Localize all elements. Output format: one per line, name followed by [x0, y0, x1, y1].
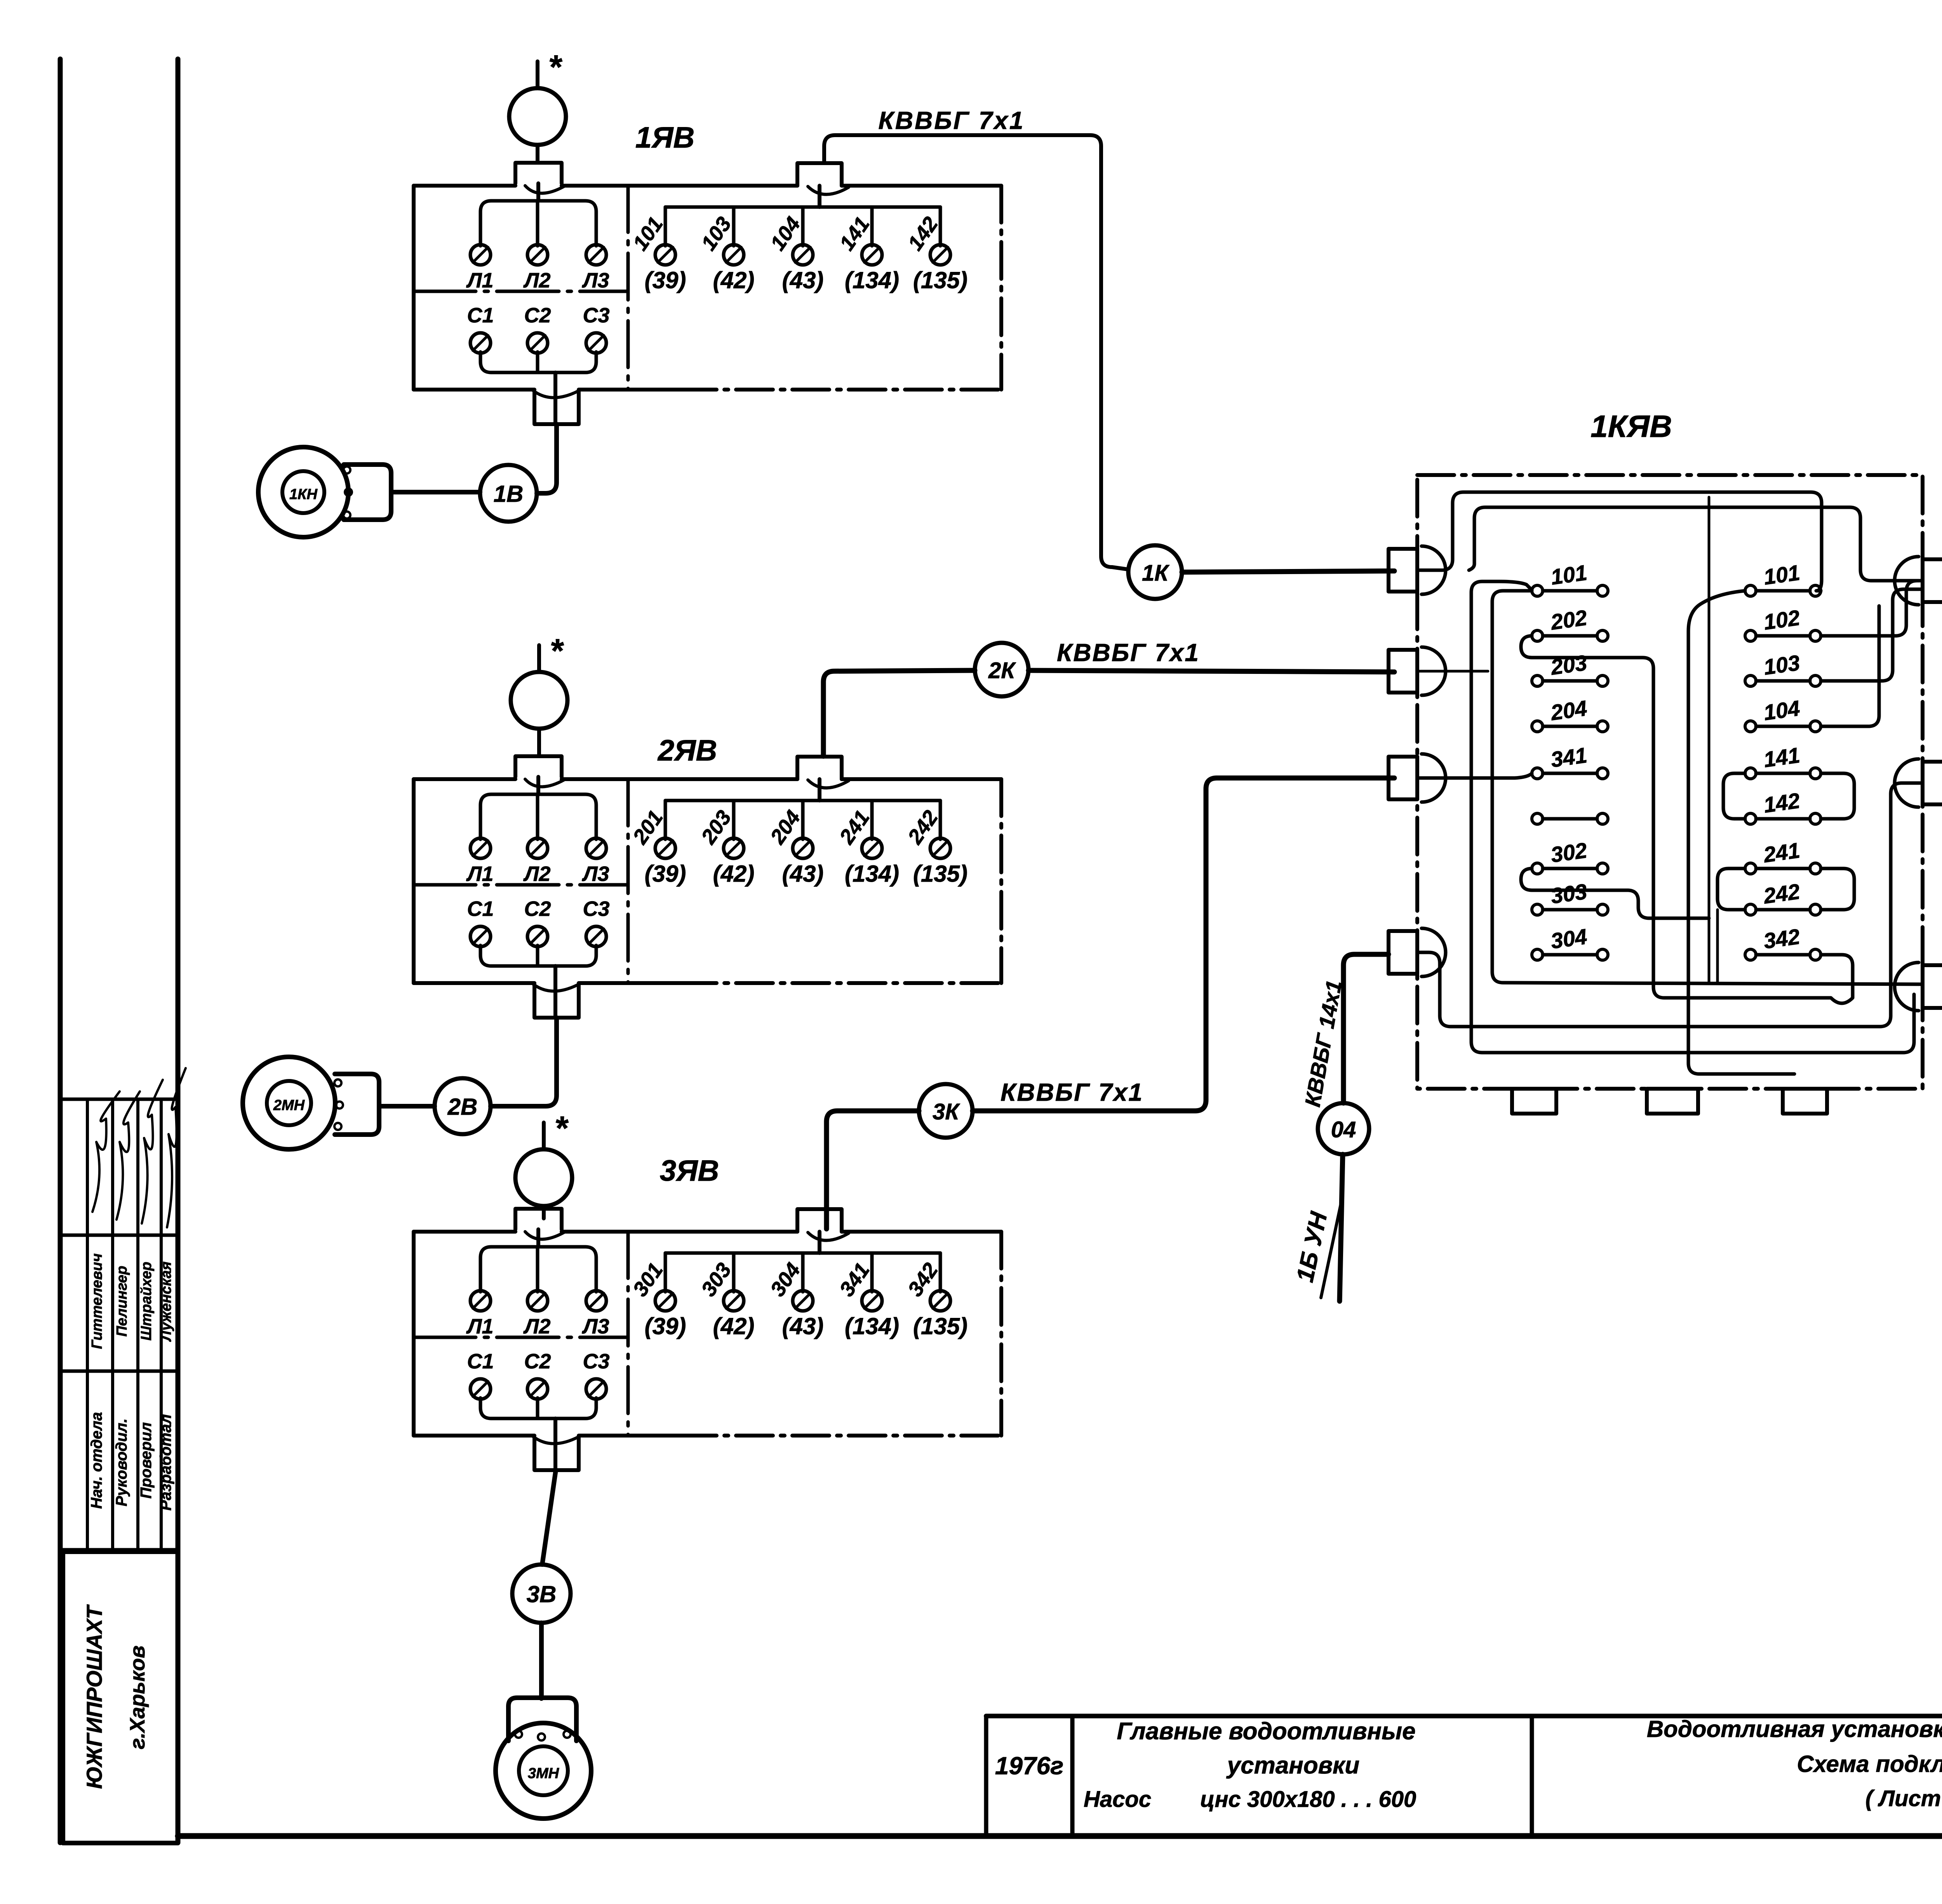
wire left row 101 down to gland 3У: [1492, 591, 1923, 984]
title block top line: [986, 1714, 1942, 1718]
svg-text:1К: 1К: [1142, 560, 1169, 586]
terminal pair left 204: [1532, 721, 1543, 732]
cable marker circle 3В: [512, 1565, 571, 1623]
terminal pair left 202: [1532, 630, 1543, 641]
signature squiggle 1: [92, 1091, 120, 1212]
stamp table divider 1: [61, 1234, 178, 1237]
pump motor 2МН inner: [267, 1081, 311, 1125]
svg-text:( Лист 12): ( Лист 12): [1865, 1786, 1942, 1811]
svg-text:1976г: 1976г: [995, 1752, 1064, 1780]
cable gland 04 entry arc: [1422, 928, 1446, 976]
wire bracket rows 141-142 left: [1723, 773, 1745, 819]
svg-text:Штрайхер: Штрайхер: [138, 1262, 155, 1340]
wire 04 gland to gland 2У: [1417, 783, 1923, 1027]
wire 2К to junction box: [1028, 670, 1394, 672]
terminal pair right 101: [1745, 585, 1756, 596]
2ЯВ drive stem below: [537, 729, 541, 741]
cable КВВБГ 14х1 up to junction box: [1343, 954, 1389, 1103]
svg-text:3ЯВ: 3ЯВ: [660, 1154, 719, 1187]
svg-text:Гиттелевич: Гиттелевич: [89, 1253, 105, 1349]
svg-text:103: 103: [1762, 650, 1801, 679]
svg-text:102: 102: [1762, 605, 1801, 634]
cable gland 1К entry arc: [1422, 546, 1446, 594]
svg-text:101: 101: [1549, 560, 1589, 589]
wire drive1 to connector: [536, 145, 539, 163]
wire row 302 hook: [1521, 868, 1709, 918]
svg-text:342: 342: [1762, 924, 1801, 953]
motor 2МН contact dot 3: [334, 1123, 341, 1130]
svg-text:Проверил: Проверил: [137, 1422, 155, 1498]
cable gland 2У entry square: [1923, 762, 1942, 804]
terminal pair right 141: [1745, 768, 1756, 779]
wire 1К to junction box: [1182, 571, 1394, 572]
svg-text:341: 341: [1549, 743, 1589, 772]
svg-text:1В: 1В: [494, 481, 524, 507]
cable КВВБГ 7х1 from 1ЯВ: [824, 135, 1128, 569]
svg-text:304: 304: [1549, 924, 1589, 953]
wire row 342 stub: [1821, 953, 1842, 957]
motor 3МН terminal box: [508, 1698, 576, 1741]
3ЯВ drive stem below: [542, 1206, 546, 1218]
valve circle 2ЯВ drive: [511, 672, 567, 729]
svg-text:Разработал: Разработал: [157, 1414, 174, 1511]
svg-text:2В: 2В: [447, 1094, 478, 1120]
motor 2МН terminal box: [335, 1074, 379, 1135]
motor 3МН contact dot 2: [538, 1733, 545, 1740]
wire 2К gland stub: [1417, 670, 1488, 673]
svg-text:Луженская: Луженская: [158, 1262, 174, 1342]
2ЯВ drive stem above: [537, 645, 541, 672]
cable gland 3К entry arc: [1422, 754, 1446, 802]
terminal pair right 102: [1745, 630, 1756, 641]
svg-text:*: *: [548, 49, 562, 86]
svg-text:2МН: 2МН: [273, 1097, 305, 1114]
cable gland 3К entry square: [1389, 757, 1417, 799]
frame left outer line: [58, 59, 63, 1843]
wire 2В to starter 2ЯВ: [491, 1018, 557, 1106]
wire ring core to gland 1У: [1469, 507, 1923, 581]
svg-text:установки: установки: [1226, 1752, 1360, 1779]
svg-text:242: 242: [1762, 879, 1801, 908]
cable gland 3У entry arc: [1895, 962, 1919, 1011]
svg-text:Насос: Насос: [1084, 1787, 1151, 1812]
terminal pair left 302: [1532, 863, 1543, 874]
svg-text:цнс 300х180 . . . 600: цнс 300х180 . . . 600: [1200, 1787, 1416, 1812]
signature squiggle 4: [167, 1068, 186, 1227]
svg-text:141: 141: [1762, 743, 1801, 772]
svg-text:ЮЖГИПРОШАХТ: ЮЖГИПРОШАХТ: [82, 1604, 106, 1789]
frame left inner line: [176, 59, 181, 1843]
signature squiggle 2: [117, 1091, 140, 1220]
3ЯВ drive stem above: [542, 1123, 546, 1149]
motor 1КН contact dot 3: [343, 512, 350, 519]
junction box mounting foot: [1512, 1089, 1556, 1114]
svg-text:3МН: 3МН: [528, 1765, 560, 1782]
frame bottom line: [178, 1833, 1942, 1839]
terminal pair left 203: [1532, 675, 1543, 686]
svg-text:104: 104: [1762, 696, 1801, 725]
divider after pump cell: [1530, 1716, 1534, 1836]
pump motor 3МН inner: [519, 1746, 568, 1795]
stamp column line a: [86, 1099, 89, 1550]
cable gland 04 entry square: [1389, 931, 1417, 974]
cable marker circle 04: [1318, 1103, 1369, 1154]
wire 2МН to 2В: [379, 1104, 435, 1109]
wire row 104 riser: [1821, 606, 1879, 726]
divider after year cell: [1070, 1716, 1075, 1836]
starter box 3ЯВ: [414, 1209, 1001, 1470]
cable gland 1У entry square: [1923, 559, 1942, 602]
wire ring 1К to right row 101: [1417, 492, 1822, 591]
terminal pair right 242: [1745, 904, 1756, 915]
svg-text:204: 204: [1549, 696, 1589, 725]
motor 2МН contact dot 2: [336, 1102, 343, 1109]
terminal pair right 103: [1745, 675, 1756, 686]
svg-text:2К: 2К: [988, 658, 1016, 683]
cable gland 3У entry square: [1923, 965, 1942, 1008]
svg-text:303: 303: [1549, 879, 1589, 908]
svg-text:КВВБГ 7х1: КВВБГ 7х1: [1001, 1078, 1143, 1106]
wire drive3 to connector: [542, 1206, 546, 1210]
svg-text:202: 202: [1549, 605, 1589, 635]
terminal pair left 303: [1532, 904, 1543, 915]
terminal pair left 101: [1532, 585, 1543, 596]
svg-text:Пелингер: Пелингер: [114, 1266, 130, 1337]
motor 1КН terminal box: [344, 465, 391, 520]
svg-text:КВВБГ 7х1: КВВБГ 7х1: [879, 106, 1025, 134]
svg-text:Нач. отдела: Нач. отдела: [88, 1412, 105, 1509]
terminal pair left 304: [1532, 949, 1543, 960]
wire 3В to motor 3МН: [539, 1623, 544, 1699]
junction box mounting foot: [1647, 1089, 1698, 1114]
wire 1КН to 1В: [391, 490, 480, 494]
stamp table top line: [61, 1098, 178, 1101]
svg-text:Водоотливная установка на: Водоотливная установка на 5 агрегатов: [1647, 1716, 1942, 1742]
1ЯВ drive stem above: [536, 61, 539, 88]
terminal pair right 241: [1745, 863, 1756, 874]
svg-text:302: 302: [1549, 838, 1589, 867]
junction box 1КЯВ chain outline: [1417, 475, 1923, 1089]
wire long centre vertical: [1708, 497, 1711, 983]
cable gland 2У entry arc: [1895, 759, 1919, 807]
wire bracket tail down: [1716, 910, 1719, 983]
starter box 1ЯВ: [414, 163, 1001, 424]
svg-text:101: 101: [1762, 560, 1801, 589]
signature squiggle 3: [142, 1080, 163, 1224]
wire drive2 to connector: [537, 729, 541, 756]
cable marker circle 1К: [1128, 545, 1182, 599]
1ЯВ drive stem below: [536, 145, 539, 157]
svg-text:Главные водоотливные: Главные водоотливные: [1117, 1718, 1415, 1745]
svg-text:КВВБГ 7х1: КВВБГ 7х1: [1057, 639, 1200, 667]
wire bracket rows 141-142 right: [1821, 773, 1854, 819]
wire 3К gland to row 341: [1417, 773, 1532, 778]
pump motor 3МН outer: [496, 1723, 591, 1819]
stamp column line b: [111, 1099, 114, 1550]
terminal pair left link: [1532, 813, 1543, 824]
svg-text:*: *: [554, 1110, 569, 1147]
title block left edge: [984, 1716, 988, 1836]
stamp table divider 2: [61, 1370, 178, 1373]
svg-text:1КЯВ: 1КЯВ: [1590, 409, 1672, 444]
cable marker circle 2В: [435, 1078, 491, 1134]
terminal pair right 342: [1745, 949, 1756, 960]
svg-text:3В: 3В: [527, 1581, 557, 1607]
starter box 2ЯВ: [414, 756, 1001, 1018]
underline of 1Б УН: [1321, 1199, 1342, 1298]
cable gland 1У entry arc: [1895, 557, 1919, 605]
cable gland 2К entry arc: [1422, 647, 1446, 695]
stamp table bottom line: [61, 1548, 178, 1552]
motor 2МН contact dot 1: [334, 1079, 341, 1086]
wire 1В to starter 1ЯВ: [537, 424, 557, 493]
svg-text:Схема подключения: Схема подключения: [1797, 1751, 1942, 1777]
motor 1КН contact dot 2: [345, 489, 352, 496]
svg-text:г.Харьков: г.Харьков: [126, 1645, 149, 1749]
stamp column line c: [136, 1099, 139, 1550]
wire row 202 hook to row 342: [1521, 636, 1853, 1003]
terminal pair right 142: [1745, 813, 1756, 824]
junction box mounting foot: [1783, 1089, 1827, 1114]
svg-text:1КН: 1КН: [289, 486, 318, 503]
pump motor 1КН outer: [258, 447, 348, 537]
cable marker circle 1В: [480, 465, 537, 522]
terminal pair left 341: [1532, 768, 1543, 779]
svg-text:*: *: [550, 632, 564, 670]
svg-text:2ЯВ: 2ЯВ: [657, 734, 717, 767]
cable 04 to pump station: [1340, 1154, 1343, 1301]
valve circle 1ЯВ drive: [509, 88, 566, 145]
wire centre vertical from row 101 right-left: [1688, 591, 1794, 1074]
wire 3К to junction box: [973, 778, 1394, 1111]
wire second left vertical to bottom bundle: [1471, 581, 1914, 1053]
cable marker circle 2К: [975, 643, 1028, 696]
wire row 102 to gland 1У: [1821, 581, 1923, 636]
wire starter 3ЯВ to 3В: [542, 1470, 556, 1565]
cable 3К riser from 3ЯВ: [827, 1111, 919, 1229]
svg-text:04: 04: [1331, 1117, 1356, 1142]
svg-text:241: 241: [1762, 838, 1801, 867]
pump motor 2МН outer: [243, 1057, 335, 1149]
svg-text:3К: 3К: [933, 1099, 960, 1124]
svg-text:203: 203: [1549, 650, 1589, 680]
cable marker circle 3К: [919, 1084, 973, 1138]
svg-text:142: 142: [1762, 788, 1801, 817]
valve circle 3ЯВ drive: [515, 1149, 572, 1206]
organisation box ЮЖГИПРОШАХТ: [63, 1552, 178, 1843]
cable 2К riser from 2ЯВ: [823, 670, 975, 756]
cable gland 2К entry square: [1389, 650, 1417, 693]
terminal pair right 104: [1745, 721, 1756, 732]
wire bracket rows 241-242 right: [1821, 868, 1854, 910]
motor 1КН contact dot 1: [343, 466, 350, 473]
wire row 103 to gland 1У: [1821, 589, 1921, 681]
pump motor 1КН inner: [282, 471, 324, 513]
stamp column line d: [160, 1099, 163, 1550]
motor 3МН contact dot 3: [564, 1731, 571, 1738]
cable gland 1К entry square: [1389, 549, 1417, 592]
svg-text:Руководил.: Руководил.: [113, 1418, 130, 1506]
wire bracket rows 241-242 left: [1718, 868, 1745, 910]
svg-text:1ЯВ: 1ЯВ: [635, 121, 695, 154]
motor 3МН contact dot 1: [515, 1731, 522, 1738]
